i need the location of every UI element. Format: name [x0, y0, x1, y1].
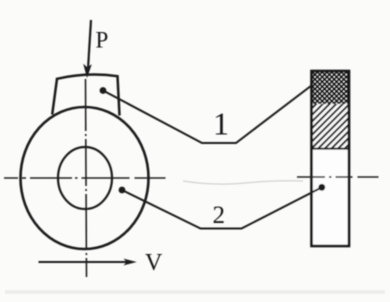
svg-text:P: P [96, 28, 109, 53]
svg-text:2: 2 [213, 202, 226, 229]
svg-text:1: 1 [213, 106, 229, 142]
svg-text:V: V [145, 250, 163, 276]
